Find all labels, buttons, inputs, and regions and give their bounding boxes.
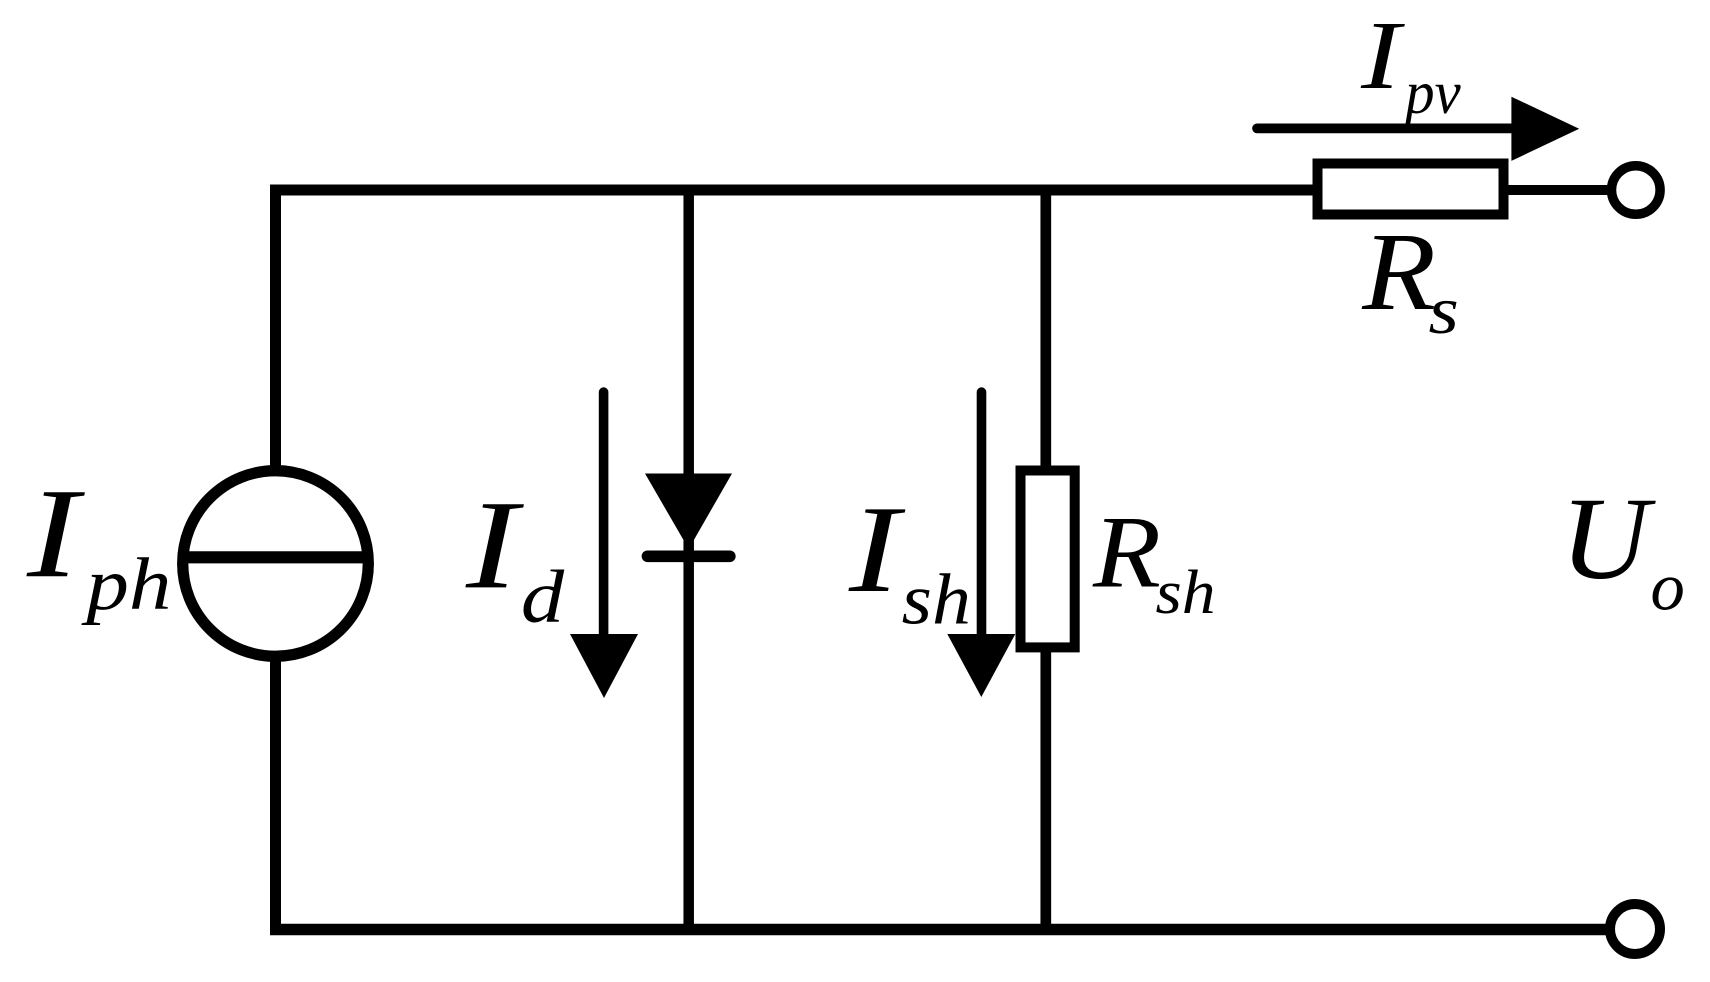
resistor R_sh box	[1021, 471, 1075, 648]
diode D1 triangle	[645, 474, 732, 550]
wire R_s to terminal	[1508, 185, 1608, 195]
current arrow I_sh	[947, 392, 1015, 697]
svg-text:pv: pv	[1401, 59, 1461, 126]
wire top bus	[270, 185, 1313, 196]
wire left vertical lower	[270, 656, 281, 935]
current arrow I_d	[570, 392, 638, 698]
wire shunt branch vertical upper	[1040, 185, 1051, 471]
wire shunt branch vertical lower	[1040, 650, 1051, 930]
terminal node bottom	[1610, 904, 1660, 954]
svg-text:I: I	[1360, 2, 1406, 110]
svg-text:R: R	[1092, 495, 1161, 609]
svg-text:R: R	[1361, 211, 1436, 334]
svg-text:I: I	[848, 480, 906, 618]
current source I_ph	[182, 471, 369, 657]
svg-text:o: o	[1650, 549, 1684, 625]
diode D1 cathode bar	[648, 550, 730, 562]
wire diode branch vertical	[683, 185, 694, 930]
svg-text:sh: sh	[1155, 558, 1215, 627]
svg-text:d: d	[521, 555, 565, 639]
current arrow I_pv	[1257, 97, 1579, 161]
wire bottom bus	[270, 924, 1606, 936]
terminal node top	[1612, 166, 1661, 215]
svg-text:U: U	[1560, 474, 1656, 604]
svg-text:s: s	[1428, 273, 1458, 348]
resistor R_s box	[1318, 164, 1504, 215]
svg-text:ph: ph	[81, 544, 171, 626]
wire left vertical upper	[270, 185, 281, 471]
svg-text:sh: sh	[902, 560, 971, 640]
svg-text:I: I	[465, 474, 524, 615]
svg-text:I: I	[26, 462, 86, 604]
